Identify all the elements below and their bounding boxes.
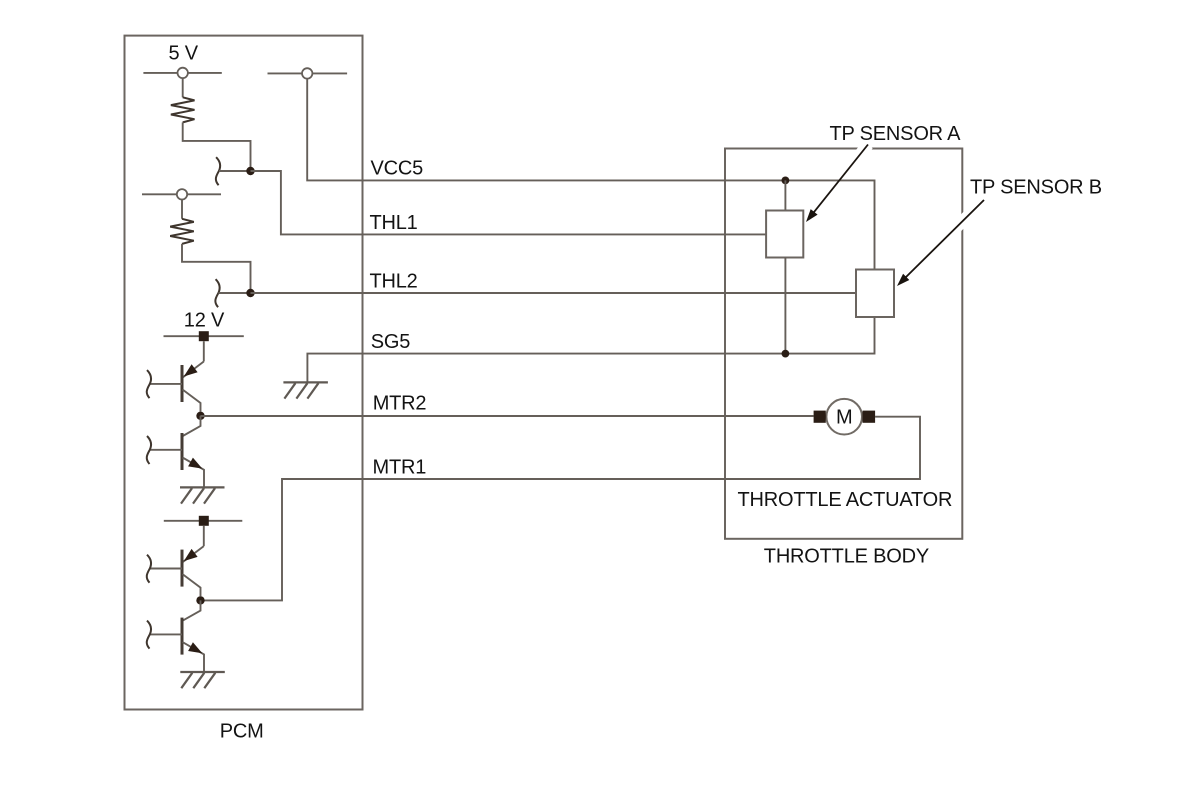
motor right terminal: [863, 411, 876, 423]
wire THL1: [251, 171, 767, 234]
leader line TP sensor A: [813, 145, 868, 214]
arrowhead TP sensor B: [897, 274, 909, 286]
wire sensor A top: [784, 180, 786, 210]
break symbol: [147, 555, 151, 583]
node MTR1 junction: [196, 596, 204, 604]
5V rail 2 wire: [268, 72, 348, 74]
svg-text:THROTTLE ACTUATOR: THROTTLE ACTUATOR: [738, 489, 953, 511]
node junction: [246, 289, 254, 297]
wire: [181, 200, 183, 219]
transistor Q4 collector: [183, 600, 201, 620]
transistor Q2 base wire: [151, 449, 183, 451]
terminal circle (THL2 pull-up): [177, 189, 187, 199]
node VCC5 junction (throttle body): [782, 177, 790, 185]
ground (Q2): [180, 487, 225, 503]
wire sensor A bottom: [784, 258, 786, 354]
terminal circle (VCC5 source): [302, 68, 312, 78]
svg-text:TP SENSOR A: TP SENSOR A: [830, 123, 962, 145]
transistor Q2 bar: [181, 433, 184, 470]
ground (Q4): [180, 672, 225, 688]
svg-text:THROTTLE BODY: THROTTLE BODY: [764, 545, 929, 567]
motor left terminal: [814, 411, 826, 423]
transistor Q3 arrow: [184, 549, 198, 561]
wire THL2: [251, 292, 857, 294]
ground (SG5): [283, 382, 328, 398]
node SG5 junction (throttle body): [782, 350, 790, 358]
PCM box: [125, 36, 363, 710]
12V rail 2 wire: [164, 520, 243, 522]
svg-text:VCC5: VCC5: [371, 158, 424, 180]
motor M1 circle: [826, 399, 862, 435]
node junction: [246, 167, 254, 175]
svg-text:5 V: 5 V: [169, 43, 199, 65]
transistor Q1 emitter: [183, 390, 201, 412]
transistor Q1 collector: [183, 362, 204, 378]
transistor Q1 arrow: [184, 364, 198, 376]
terminal circle (5V pull-up 1): [178, 68, 188, 78]
break symbol: [147, 436, 151, 464]
wire SG5: [307, 318, 874, 382]
transistor Q4 bar: [181, 618, 184, 655]
transistor Q2 arrow: [188, 458, 202, 469]
5V rail 3 wire: [142, 193, 221, 195]
transistor Q3 bar: [181, 550, 184, 587]
arrowhead TP sensor A: [806, 209, 818, 222]
transistor Q1 bar: [181, 365, 184, 402]
leader casing B: [955, 200, 984, 229]
break symbol: [215, 279, 219, 307]
wire MTR1: [201, 417, 920, 601]
wire: [182, 244, 251, 293]
svg-text:THL2: THL2: [370, 270, 418, 292]
resistor R1: [171, 97, 195, 122]
wire: [203, 526, 205, 546]
wire: [183, 122, 251, 171]
resistor R2: [170, 219, 194, 244]
transistor Q2 collector: [183, 416, 201, 436]
svg-text:MTR1: MTR1: [373, 456, 427, 478]
wire: [182, 78, 184, 97]
node MTR2 junction: [196, 412, 204, 420]
transistor Q3 emitter: [183, 574, 201, 596]
transistor Q3 base wire: [151, 568, 183, 570]
break symbol: [147, 370, 151, 398]
svg-text:M: M: [836, 406, 852, 428]
12V square terminal 2: [199, 516, 209, 526]
wire: [219, 292, 251, 294]
svg-text:PCM: PCM: [220, 721, 264, 743]
12V square terminal: [199, 331, 209, 341]
leader casing A: [852, 145, 868, 166]
transistor Q1 base wire: [151, 383, 183, 385]
12V rail wire: [164, 335, 244, 337]
svg-text:THL1: THL1: [370, 212, 418, 234]
TP sensor A body: [766, 211, 803, 258]
svg-text:12 V: 12 V: [184, 309, 225, 331]
svg-text:TP SENSOR B: TP SENSOR B: [970, 177, 1102, 199]
leader line TP sensor B: [905, 200, 984, 278]
5V rail 1 wire: [143, 72, 221, 74]
transistor Q4 emitter: [183, 642, 205, 672]
wire: [219, 170, 251, 172]
TP sensor B body: [856, 270, 894, 318]
break symbol: [216, 157, 220, 185]
break symbol: [147, 621, 151, 649]
transistor Q4 arrow: [188, 642, 202, 653]
wire VCC5: [307, 79, 874, 270]
transistor Q3 collector: [183, 546, 204, 562]
wire: [203, 341, 205, 361]
svg-text:MTR2: MTR2: [373, 392, 427, 414]
transistor Q4 base wire: [151, 633, 183, 635]
svg-text:SG5: SG5: [371, 331, 410, 353]
wire MTR2: [201, 415, 814, 417]
transistor Q2 emitter: [183, 458, 205, 488]
throttle body box: [725, 149, 962, 539]
